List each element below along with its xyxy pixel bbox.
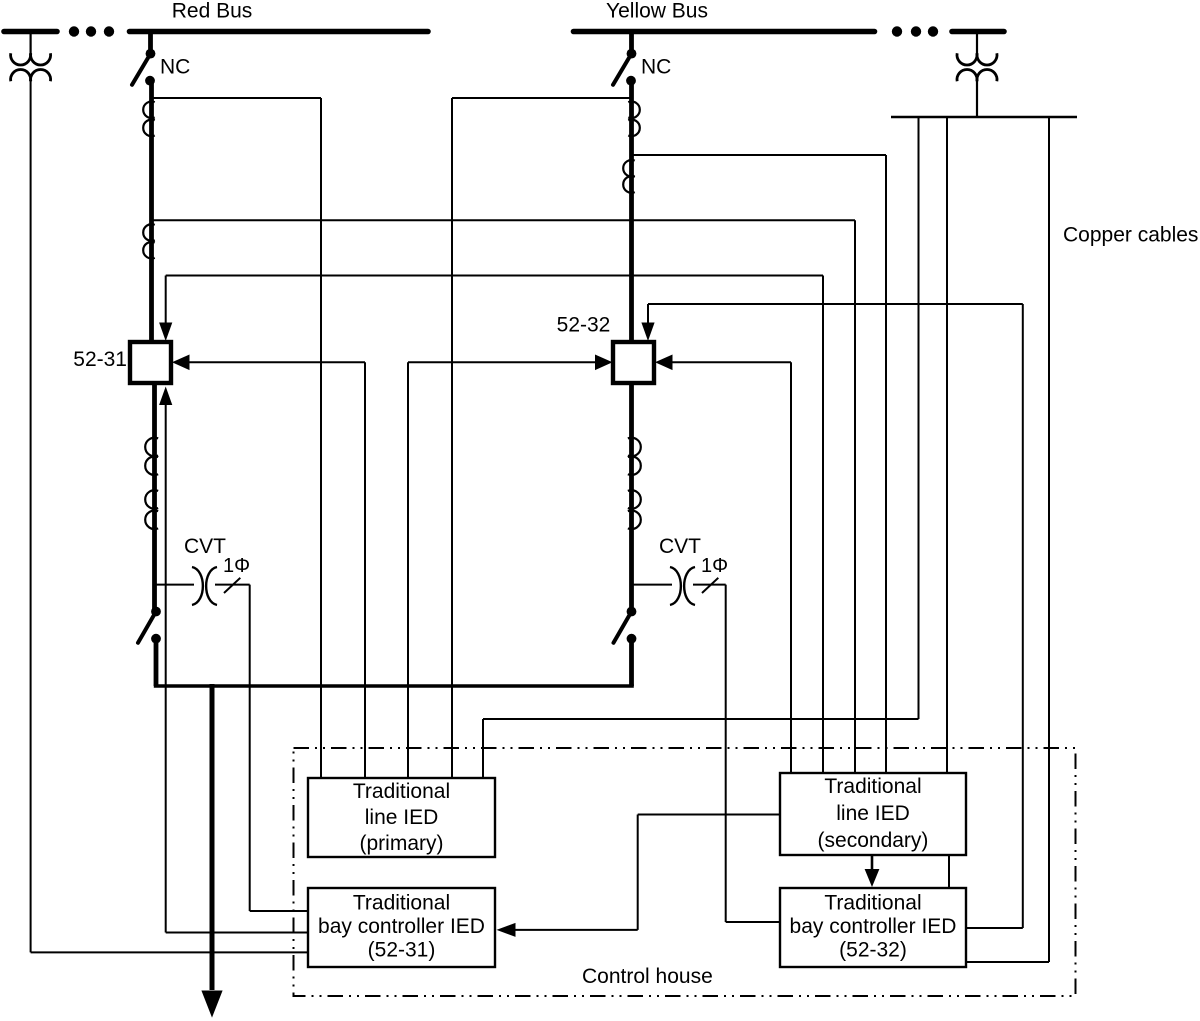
outgoing feeder line (down arrow) <box>210 684 215 990</box>
arrowhead into 52-31 top <box>159 323 172 342</box>
disconnect switch S2 red: bottom dot <box>151 634 161 644</box>
wire: T1 secondary down to bay controller 52-31 <box>30 80 32 953</box>
arrowhead into 52-32 left <box>595 355 613 371</box>
svg-text:line IED: line IED <box>365 806 439 829</box>
svg-text:(secondary): (secondary) <box>818 829 929 852</box>
breaker 52-31 box <box>130 342 171 383</box>
bus: Yellow Bus <box>574 29 875 35</box>
CVT red: secondary wire with phase slash <box>215 584 250 586</box>
CT red group2 coil a <box>143 224 155 241</box>
red feeder: bus drop segment <box>148 34 153 55</box>
svg-text:Control house: Control house <box>582 965 713 988</box>
wire: yellow CT1 to line IED primary <box>452 97 632 99</box>
disconnect switch S2 red: top dot <box>151 607 161 617</box>
svg-text:Traditional: Traditional <box>824 775 921 798</box>
svg-text:(52-31): (52-31) <box>368 939 436 962</box>
CT yellow group2 coil a <box>623 160 635 177</box>
svg-text:Traditional: Traditional <box>824 892 921 915</box>
disconnect switch S3 (NC) yellow: bottom dot <box>626 76 636 86</box>
red feeder: upper segment <box>149 81 154 342</box>
wire: red CVT secondary to bay controller 52-31 <box>249 585 251 911</box>
red feeder: lower segment <box>152 383 157 612</box>
svg-text:line IED: line IED <box>836 802 910 825</box>
node: feeder tie (thick join line) <box>154 684 634 688</box>
CT red group4 coil b <box>145 511 158 530</box>
yellow feeder: upper segment <box>629 81 634 342</box>
svg-text:(primary): (primary) <box>360 832 444 855</box>
CVT yellow: primary tap wire <box>633 584 672 586</box>
bus: right stub bus <box>952 29 1004 35</box>
CT yellow group4 coil b <box>628 511 641 530</box>
junction dots (bus continuation, right) <box>892 26 902 36</box>
CVT red: primary tap wire <box>153 584 194 586</box>
wire: red CT2 to line IED secondary <box>153 219 855 221</box>
arrowhead into 52-32 right <box>655 355 673 371</box>
yellow feeder: bus drop segment <box>629 34 634 55</box>
arrowhead into bay controller 52-31 right <box>497 923 516 937</box>
bus: left stub bus <box>4 29 57 35</box>
wire: comm link line IED secondary to bay controller 52-31 (arrow) <box>638 814 780 816</box>
disconnect switch S2 red: blade <box>138 612 156 643</box>
CVT yellow: secondary wire with phase slash <box>693 584 726 586</box>
wire: comm link secondary IED to bay controller 52-32 <box>948 855 950 888</box>
svg-text:CVT: CVT <box>184 535 226 558</box>
wire+arrow: secondary IED to bay controller 52-32 <box>871 855 874 869</box>
yellow feeder: lower segment <box>629 383 634 612</box>
svg-text:NC: NC <box>641 56 671 79</box>
wire: yellow CT2 to line IED secondary <box>633 154 886 156</box>
CT yellow group1 coil a <box>628 101 640 118</box>
wire: red CT1 to line IED primary <box>151 97 321 99</box>
disconnect switch S4 yellow: blade <box>614 612 632 643</box>
wire: trip from line IED primary to breaker 52-31 right <box>189 361 365 363</box>
wire: yellow CVT secondary to bay controller 52-32 <box>725 585 727 922</box>
box: Traditional bay controller IED (52-32) <box>780 888 966 967</box>
svg-text:Red Bus: Red Bus <box>172 0 253 23</box>
arrowhead into 52-31 right <box>172 355 190 371</box>
svg-text:Yellow Bus: Yellow Bus <box>606 0 708 23</box>
CT red group1 coil b <box>143 120 155 137</box>
svg-text:1Φ: 1Φ <box>701 555 728 577</box>
disconnect switch S3 (NC) yellow: blade <box>613 54 632 85</box>
CVT yellow: windings <box>670 567 681 605</box>
wire: control from bay controller 52-32 to breaker top <box>647 304 649 324</box>
svg-text:52-31: 52-31 <box>73 348 127 371</box>
svg-text:(52-32): (52-32) <box>839 939 907 962</box>
disconnect switch S1 (NC) red: blade <box>132 54 151 85</box>
svg-text:bay controller IED: bay controller IED <box>318 915 485 938</box>
CT yellow group3 coil a <box>628 438 641 457</box>
arrowhead into 52-32 top <box>641 323 654 342</box>
svg-text:Traditional: Traditional <box>353 892 450 915</box>
CT red group3 coil b <box>145 456 158 475</box>
CVT red: windings <box>192 567 203 605</box>
svg-text:bay controller IED: bay controller IED <box>790 915 957 938</box>
transformer T2 (right bus VT) primary stem <box>976 34 978 56</box>
CT red group4 coil a <box>145 490 158 509</box>
CT yellow group3 coil b <box>628 456 641 475</box>
svg-text:52-32: 52-32 <box>557 314 611 337</box>
disconnect switch S3 (NC) yellow: top dot <box>627 49 637 59</box>
svg-text:Copper cables: Copper cables <box>1063 224 1198 247</box>
wire: bar to bay controller 52-32 (x1049) <box>1048 117 1050 962</box>
CT red group3 coil a <box>145 438 158 457</box>
disconnect switch S1 (NC) red: top dot <box>146 49 156 59</box>
box: Traditional bay controller IED (52-31) <box>308 888 495 967</box>
disconnect switch S4 yellow: top dot <box>627 607 637 617</box>
bus: Red Bus <box>130 29 429 35</box>
svg-text:CVT: CVT <box>659 535 701 558</box>
wire: trip from line IED primary to breaker 52-32 left <box>407 362 409 778</box>
transformer T2 secondary stem <box>976 80 978 118</box>
wire: bar to line IED secondary (x947) <box>946 117 948 773</box>
transformer T2 (right bus VT) windings <box>957 53 977 65</box>
svg-text:1Φ: 1Φ <box>223 555 250 577</box>
CT yellow group4 coil a <box>628 490 641 509</box>
wire: trip from line IED secondary to breaker 52-32 right <box>669 361 791 363</box>
CT red group2 coil b <box>143 242 155 259</box>
wire: control from bay controller 52-31 to breaker bottom <box>165 405 167 933</box>
arrowhead into bay controller 52-32 top <box>865 869 880 887</box>
control house boundary (dash-dot box) <box>294 748 1076 996</box>
breaker 52-32 box <box>613 342 654 383</box>
node: copper cable distribution bar <box>891 116 1077 118</box>
svg-text:NC: NC <box>160 56 190 79</box>
arrowhead into 52-31 bottom <box>159 387 172 406</box>
svg-text:Traditional: Traditional <box>353 780 450 803</box>
CT yellow group2 coil b <box>623 176 635 193</box>
disconnect switch S1 (NC) red: bottom dot <box>145 76 155 86</box>
wire: bar to line IED primary (via x918) <box>918 117 920 719</box>
CT red group1 coil a <box>143 101 155 118</box>
transformer T1 (left bus VT) windings <box>11 53 31 65</box>
box: Traditional line IED (secondary) <box>780 773 966 855</box>
transformer T1 (left bus VT) primary stem <box>30 34 32 56</box>
junction dots (bus continuation, left) <box>69 26 79 36</box>
disconnect switch S4 yellow: bottom dot <box>627 634 637 644</box>
wire: trip from line IED secondary to breaker 52-31 top <box>166 275 823 277</box>
yellow feeder: bottom segment <box>629 639 634 686</box>
box: Traditional line IED (primary) <box>308 778 495 857</box>
CT yellow group1 coil b <box>628 120 640 137</box>
arrowhead: outgoing feeder <box>201 991 222 1018</box>
red feeder: bottom segment <box>154 639 159 686</box>
